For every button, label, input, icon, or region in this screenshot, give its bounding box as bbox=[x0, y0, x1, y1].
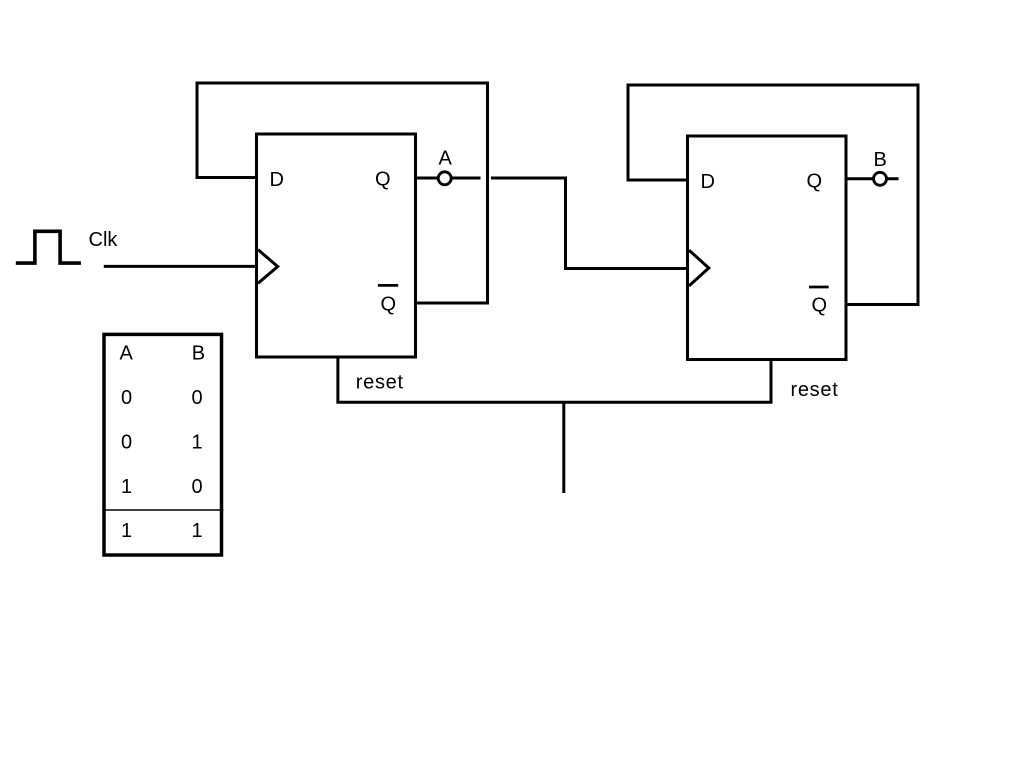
svg-text:Q: Q bbox=[812, 295, 828, 317]
flip-flop U1 bbox=[257, 134, 416, 357]
svg-text:1: 1 bbox=[191, 432, 202, 454]
table row 3 bbox=[121, 476, 203, 498]
inverter bubble A bbox=[438, 172, 451, 185]
wire U2 Q output stub bbox=[846, 177, 899, 180]
U2 clock triangle bbox=[689, 250, 709, 286]
svg-text:reset: reset bbox=[356, 371, 404, 393]
U1 pin Qbar bbox=[378, 285, 398, 315]
wire node A to U2 clock bbox=[491, 178, 686, 269]
svg-text:0: 0 bbox=[121, 387, 132, 409]
svg-text:A: A bbox=[439, 148, 453, 170]
clock pulse symbol bbox=[16, 231, 81, 263]
table row 4 bbox=[121, 520, 203, 542]
svg-text:Q: Q bbox=[375, 169, 391, 191]
table row 1 bbox=[121, 387, 203, 409]
svg-text:D: D bbox=[701, 171, 715, 193]
wire U2 reset stub bbox=[770, 359, 773, 402]
truth table separator line bbox=[102, 509, 223, 511]
svg-text:Clk: Clk bbox=[89, 229, 119, 251]
wire U1 Qbar feedback to D bbox=[197, 83, 488, 303]
inverter bubble B bbox=[874, 172, 887, 185]
svg-text:Q: Q bbox=[807, 171, 823, 193]
svg-text:0: 0 bbox=[191, 387, 202, 409]
svg-text:1: 1 bbox=[121, 476, 132, 498]
svg-text:reset: reset bbox=[791, 379, 839, 401]
wire reset input stub bbox=[562, 402, 565, 493]
U2 pin Qbar bbox=[809, 287, 829, 317]
svg-text:B: B bbox=[874, 149, 887, 171]
svg-text:Q: Q bbox=[381, 293, 397, 315]
wire U1 reset stub bbox=[336, 356, 339, 402]
truth table frame bbox=[104, 334, 222, 555]
svg-text:0: 0 bbox=[191, 476, 202, 498]
flip-flop U2 bbox=[688, 136, 847, 360]
table row 2 bbox=[121, 432, 203, 454]
wire U2 Qbar feedback to D bbox=[628, 85, 918, 305]
wire clock to U1 bbox=[104, 265, 257, 268]
svg-text:A: A bbox=[120, 342, 134, 364]
wire reset bus horizontal bbox=[336, 401, 772, 404]
svg-text:B: B bbox=[192, 342, 205, 364]
svg-text:1: 1 bbox=[121, 520, 132, 542]
svg-text:1: 1 bbox=[191, 520, 202, 542]
svg-text:0: 0 bbox=[121, 432, 132, 454]
U1 clock triangle bbox=[258, 250, 278, 284]
svg-text:D: D bbox=[270, 169, 284, 191]
wire U1 Q output to bubble and crossing bbox=[416, 177, 481, 180]
